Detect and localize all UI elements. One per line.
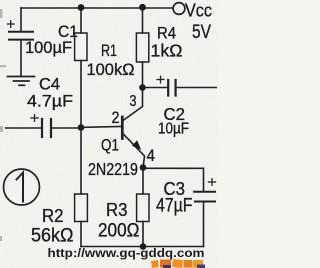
resistor R2 (75, 128, 88, 247)
node marker circled 1 (4, 169, 40, 205)
resistor R1 (75, 8, 87, 128)
scan artifacts left edge (0, 9, 6, 241)
node B junction dot (78, 124, 85, 131)
capacitor C3 (194, 179, 216, 247)
svg-text:56kΩ: 56kΩ (31, 226, 74, 247)
node 4 junction dot (140, 164, 147, 171)
svg-text:3: 3 (130, 93, 137, 110)
transistor Q1 (122, 90, 144, 167)
svg-text:Vcc: Vcc (185, 0, 212, 21)
svg-text:4: 4 (147, 146, 156, 165)
capacitor C1 (8, 8, 34, 76)
svg-text:R2: R2 (42, 206, 64, 226)
power terminal Vcc (173, 3, 185, 15)
svg-text:200Ω: 200Ω (98, 221, 140, 242)
svg-text:R3: R3 (106, 200, 128, 220)
svg-text:R1: R1 (101, 41, 117, 60)
ground (8, 77, 35, 86)
svg-text:http://www.gq-gddq.com: http://www.gq-gddq.com (48, 248, 205, 260)
svg-text:Q1: Q1 (101, 136, 119, 155)
capacitor C4 (6, 115, 79, 137)
svg-text:5V: 5V (192, 22, 211, 43)
svg-text:2N2219: 2N2219 (88, 159, 138, 179)
svg-text:10µF: 10µF (158, 121, 189, 138)
top rail junction dot R1 (78, 4, 85, 11)
resistor R4 (136, 8, 148, 88)
top rail junction dot R4 (139, 4, 146, 11)
watermark logo blobs (151, 259, 205, 268)
wire output node 4 to C3 (145, 168, 204, 191)
svg-text:1kΩ: 1kΩ (151, 41, 183, 61)
svg-text:2: 2 (112, 109, 120, 127)
wire bottom rail (81, 246, 204, 248)
wire base (84, 126, 122, 129)
svg-text:4.7µF: 4.7µF (27, 92, 73, 111)
wire top supply rail (21, 7, 173, 9)
svg-text:100µF: 100µF (25, 38, 72, 57)
bottom junction dot (140, 243, 147, 250)
resistor R3 (137, 168, 149, 247)
svg-text:47µF: 47µF (156, 196, 193, 217)
svg-text:100kΩ: 100kΩ (87, 60, 135, 79)
capacitor C2 (145, 76, 217, 95)
node 3 junction dot (139, 84, 146, 91)
